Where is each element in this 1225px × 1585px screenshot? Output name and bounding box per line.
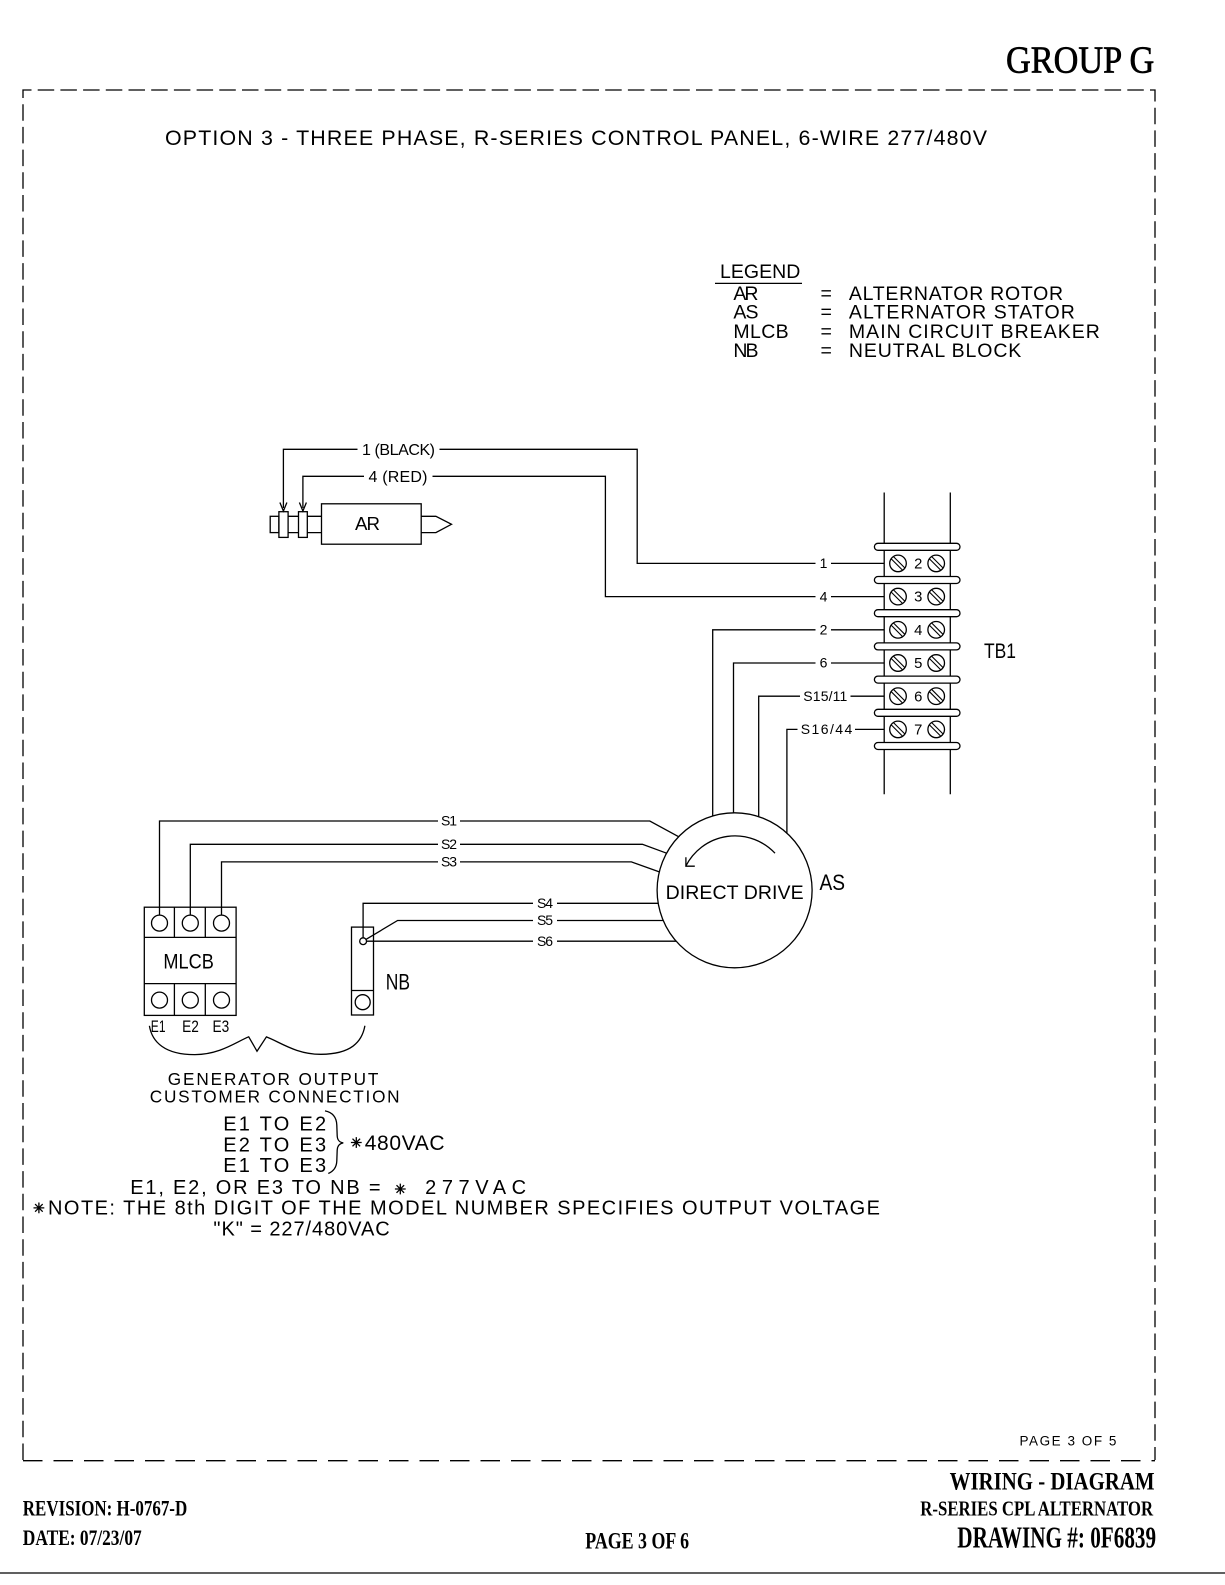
- TB1 right rail: [949, 493, 951, 795]
- svg-text:E2 TO E3: E2 TO E3: [223, 1135, 326, 1157]
- svg-text:R-SERIES CPL ALTERNATOR: R-SERIES CPL ALTERNATOR: [920, 1497, 1153, 1521]
- svg-text:S2: S2: [441, 836, 457, 852]
- AR body box: [322, 504, 422, 544]
- wire S4 from NB to stator: [363, 903, 658, 938]
- rotation arrowhead: [686, 857, 695, 866]
- star NOTE: [34, 1203, 45, 1214]
- svg-text:2: 2: [914, 557, 922, 573]
- TB1 terminal 2: [890, 555, 907, 572]
- TB1 terminal 7: [890, 721, 907, 738]
- alternator stator AS circle: [657, 813, 812, 968]
- AR shaft segment: [288, 516, 298, 532]
- svg-text:1: 1: [820, 555, 828, 571]
- svg-text:S4: S4: [537, 895, 553, 911]
- svg-text:7: 7: [914, 723, 922, 739]
- svg-text:NOTE: THE 8th DIGIT OF THE MOD: NOTE: THE 8th DIGIT OF THE MODEL NUMBER …: [48, 1197, 880, 1219]
- svg-text:E3: E3: [213, 1017, 230, 1036]
- wire S3 from MLCB to stator: [222, 862, 660, 915]
- svg-text:LEGEND: LEGEND: [720, 261, 800, 283]
- svg-text:E1: E1: [151, 1017, 166, 1036]
- svg-text:PAGE 3 OF 5: PAGE 3 OF 5: [1020, 1434, 1117, 1449]
- wire S6 from NB to stator: [367, 940, 677, 942]
- arrowhead wire 1: [280, 503, 287, 512]
- NB terminal circle: [355, 995, 370, 1010]
- svg-text:AR: AR: [355, 513, 380, 534]
- svg-text:480VAC: 480VAC: [365, 1132, 445, 1155]
- svg-text:DIRECT DRIVE: DIRECT DRIVE: [666, 882, 804, 904]
- MLCB section lines: [144, 907, 236, 1015]
- star 480: [351, 1137, 362, 1148]
- svg-text:6: 6: [820, 655, 828, 671]
- svg-text:DATE: 07/23/07: DATE: 07/23/07: [23, 1526, 142, 1550]
- AR shaft segment 2: [307, 516, 321, 532]
- svg-text:"K" = 227/480VAC: "K" = 227/480VAC: [213, 1218, 389, 1240]
- svg-text:6: 6: [914, 689, 922, 705]
- TB1 terminal 3: [890, 588, 907, 605]
- customer connection brace: [149, 1026, 365, 1055]
- svg-text:NEUTRAL BLOCK: NEUTRAL BLOCK: [849, 340, 1021, 362]
- svg-text:REVISION: H-0767-D: REVISION: H-0767-D: [23, 1497, 187, 1521]
- svg-text:DRAWING #: 0F6839: DRAWING #: 0F6839: [957, 1521, 1156, 1555]
- arrowhead wire 4: [299, 503, 306, 512]
- svg-text:CUSTOMER CONNECTION: CUSTOMER CONNECTION: [150, 1087, 400, 1107]
- svg-text:S15/11: S15/11: [803, 688, 847, 704]
- svg-text:4 (RED): 4 (RED): [369, 469, 428, 486]
- svg-text:E2: E2: [182, 1017, 199, 1036]
- rotation arrow arc: [686, 836, 775, 866]
- NB section line: [352, 990, 374, 992]
- main circuit breaker MLCB body: [144, 907, 236, 1015]
- MLCB top terminal circles: [152, 915, 168, 931]
- svg-text:S5: S5: [537, 912, 553, 928]
- NB node dot: [360, 938, 367, 945]
- wire S15/11 from stator to TB1 terminal 6: [759, 696, 885, 816]
- star 277: [395, 1184, 406, 1195]
- svg-text:S3: S3: [441, 854, 457, 870]
- svg-text:NB: NB: [386, 969, 410, 994]
- wire 4 (RED) from AR slip ring to TB1 terminal 3: [303, 476, 884, 596]
- wire S5 from NB to stator: [366, 921, 664, 940]
- TB1 separator bar: [874, 577, 960, 584]
- wire 6 from stator to TB1 terminal 5: [734, 663, 885, 813]
- svg-text:WIRING - DIAGRAM: WIRING - DIAGRAM: [950, 1466, 1155, 1495]
- svg-text:4: 4: [914, 623, 922, 639]
- svg-text:3: 3: [914, 590, 922, 606]
- svg-text:1 (BLACK): 1 (BLACK): [362, 442, 435, 459]
- TB1 separator bar: [874, 610, 960, 617]
- svg-text:AS: AS: [820, 870, 846, 895]
- TB1 separator bar: [874, 743, 960, 750]
- TB1 separator bar: [874, 709, 960, 716]
- alternator rotor AR shaft end: [270, 516, 279, 532]
- svg-text:=: =: [821, 340, 832, 362]
- svg-text:S1: S1: [441, 813, 457, 829]
- svg-text:MLCB: MLCB: [163, 951, 213, 974]
- TB1 terminal 5: [890, 655, 907, 672]
- svg-text:PAGE 3 OF 6: PAGE 3 OF 6: [585, 1529, 689, 1555]
- AR slip ring 1: [279, 512, 288, 538]
- voltage group brace: [325, 1111, 343, 1174]
- svg-text:2: 2: [820, 622, 828, 638]
- TB1 terminal 6: [890, 688, 907, 705]
- svg-text:5: 5: [914, 656, 922, 672]
- svg-text:OPTION 3 - THREE PHASE, R-SERI: OPTION 3 - THREE PHASE, R-SERIES CONTROL…: [165, 126, 988, 150]
- svg-text:E1 TO E2: E1 TO E2: [223, 1114, 326, 1136]
- TB1 left rail: [883, 493, 885, 795]
- TB1 separator bar: [874, 676, 960, 683]
- svg-text:NB: NB: [733, 340, 758, 362]
- AR slip ring 2: [299, 512, 308, 538]
- svg-text:GROUP G: GROUP G: [1006, 40, 1154, 82]
- MLCB bottom terminal circles: [152, 992, 168, 1008]
- TB1 separator bar: [874, 643, 960, 650]
- svg-text:TB1: TB1: [984, 640, 1016, 663]
- TB1 separator bar: [874, 543, 960, 550]
- wire S1 from MLCB to stator: [160, 821, 679, 915]
- neutral block NB body: [352, 927, 374, 1015]
- wire 1 (BLACK) from AR slip ring to TB1 terminal 2: [283, 449, 884, 563]
- svg-text:4: 4: [820, 588, 828, 604]
- wire S2 from MLCB to stator: [190, 844, 666, 915]
- wire S16/44 from stator to TB1 terminal 7: [787, 729, 884, 833]
- wire 2 from stator to TB1 terminal 4: [713, 630, 885, 816]
- TB1 terminal 4: [890, 622, 907, 639]
- svg-text:E1 TO E3: E1 TO E3: [223, 1155, 326, 1177]
- AR shaft tip: [421, 516, 451, 532]
- svg-text:S16/44: S16/44: [801, 721, 853, 737]
- svg-text:S6: S6: [537, 933, 553, 949]
